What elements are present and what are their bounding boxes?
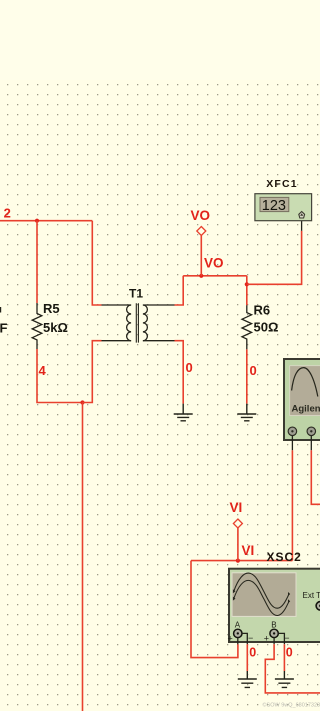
- wire scope B routed down-right: [265, 644, 320, 693]
- wire VO rail horizontal: [183, 275, 247, 277]
- svg-text:B: B: [271, 621, 276, 630]
- svg-text:5kΩ: 5kΩ: [43, 320, 68, 335]
- ground scope A: [238, 671, 257, 687]
- svg-text:VI: VI: [242, 543, 255, 558]
- XSC2 A minus wire to ground: [242, 633, 247, 644]
- svg-text:0: 0: [286, 646, 293, 660]
- transformer T1 secondary lead top: [143, 304, 175, 306]
- Agilent screen: [290, 366, 320, 416]
- wire left vertical to transformer top: [92, 221, 101, 305]
- svg-text:Ext T: Ext T: [303, 591, 320, 600]
- svg-text:50Ω: 50Ω: [254, 320, 279, 335]
- junction at (82.5,402.5): [80, 400, 84, 404]
- wire secondary bottom to ground: [175, 341, 184, 404]
- svg-text:+: +: [228, 634, 233, 644]
- XSC2 ext trigger terminal: [316, 602, 320, 611]
- transformer T1 secondary winding: [143, 305, 147, 341]
- frequency counter XFC1 body: [255, 194, 312, 221]
- XSC2 trace channel A: [234, 573, 289, 608]
- wire secondary top to VO rail: [175, 276, 184, 305]
- resistor R5: [32, 303, 42, 349]
- wire VI rail down-around to scope A: [191, 561, 238, 658]
- junction at (200.5,275.8): [199, 274, 203, 278]
- transformer T1 primary lead top: [102, 304, 132, 306]
- Agilent terminal 1: [288, 427, 297, 436]
- XFC1 pin stub: [301, 218, 303, 231]
- XSC2 B minus wire to ground: [278, 633, 284, 644]
- junction at (237.9,560.6): [236, 559, 240, 563]
- XFC1 display: [260, 197, 289, 211]
- node VI diamond connector: [233, 519, 242, 528]
- transformer T1 primary lead bottom: [102, 340, 132, 342]
- Agilent terminal 2: [307, 427, 316, 436]
- Agilent pin stub 2: [310, 436, 312, 451]
- transformer T1 secondary lead bottom: [143, 340, 175, 342]
- transformer T1 primary winding: [127, 305, 131, 341]
- wire bottom horizontal to transformer: [83, 341, 102, 403]
- wire VO stem: [200, 235, 202, 276]
- node VO diamond connector: [197, 227, 206, 236]
- svg-text:2: 2: [4, 206, 11, 221]
- svg-text:XFC1: XFC1: [266, 178, 298, 190]
- Agilent pin stub 1: [291, 436, 293, 451]
- svg-text:T1: T1: [129, 287, 143, 301]
- Agilent arch graphic: [292, 368, 318, 397]
- oscilloscope XSC2 body: [229, 569, 320, 642]
- svg-text:−: −: [284, 633, 289, 643]
- svg-text:©SOW 9wQ_68017328: ©SOW 9wQ_68017328: [263, 701, 320, 708]
- svg-text:A: A: [235, 621, 241, 630]
- svg-text:VI: VI: [230, 500, 243, 515]
- junction at (37,220.7): [35, 219, 39, 223]
- XSC2 terminal B: [270, 629, 278, 637]
- svg-text:Agilent: Agilent: [292, 404, 320, 415]
- ground under secondary: [174, 404, 193, 421]
- XSC2 B pin stub: [273, 638, 275, 645]
- resistor R6: [242, 305, 252, 349]
- wire Agilent out to VI rail: [291, 450, 293, 560]
- XSC2 A pin stub: [237, 638, 239, 645]
- wire long vertical to bottom edge: [82, 403, 84, 711]
- svg-text:VO: VO: [204, 256, 224, 271]
- wire branch to XFC1: [247, 231, 302, 284]
- svg-text:0: 0: [249, 646, 256, 660]
- wire VI stem: [237, 528, 239, 561]
- svg-text:+: +: [264, 634, 269, 644]
- svg-text:R6: R6: [254, 303, 271, 318]
- svg-text:XSC2: XSC2: [267, 550, 302, 564]
- wire R5 bottom vertical: [37, 349, 83, 403]
- svg-text:0: 0: [250, 363, 257, 378]
- svg-text:123: 123: [262, 198, 286, 214]
- cropped label sliver above F: [0, 307, 1, 313]
- XSC2 terminal A: [234, 629, 242, 637]
- svg-text:R5: R5: [43, 301, 60, 316]
- XSC2 trace channel B: [234, 580, 289, 615]
- wire VO rail corner down to R6: [246, 276, 248, 306]
- XSC2 screen: [232, 573, 296, 617]
- function generator Agilent body: [284, 359, 320, 440]
- junction at (246.8,284.3): [245, 282, 249, 286]
- svg-text:−: −: [248, 633, 253, 643]
- wire net2 vertical to R5: [36, 221, 38, 303]
- wire R6 bottom to ground: [246, 349, 248, 403]
- svg-text:4: 4: [39, 363, 47, 378]
- wire Agilent terminal2 down-right: [311, 450, 320, 504]
- wire VI rail horizontal: [191, 560, 292, 562]
- svg-text:0: 0: [186, 360, 193, 375]
- svg-text:VO: VO: [191, 208, 211, 223]
- XFC1 input terminal: [299, 212, 305, 219]
- ground scope B: [275, 671, 294, 687]
- wire net2 horizontal top: [0, 220, 92, 222]
- transformer T1 core: [136, 303, 138, 342]
- ground under R6: [237, 404, 256, 421]
- svg-text:F: F: [0, 321, 8, 336]
